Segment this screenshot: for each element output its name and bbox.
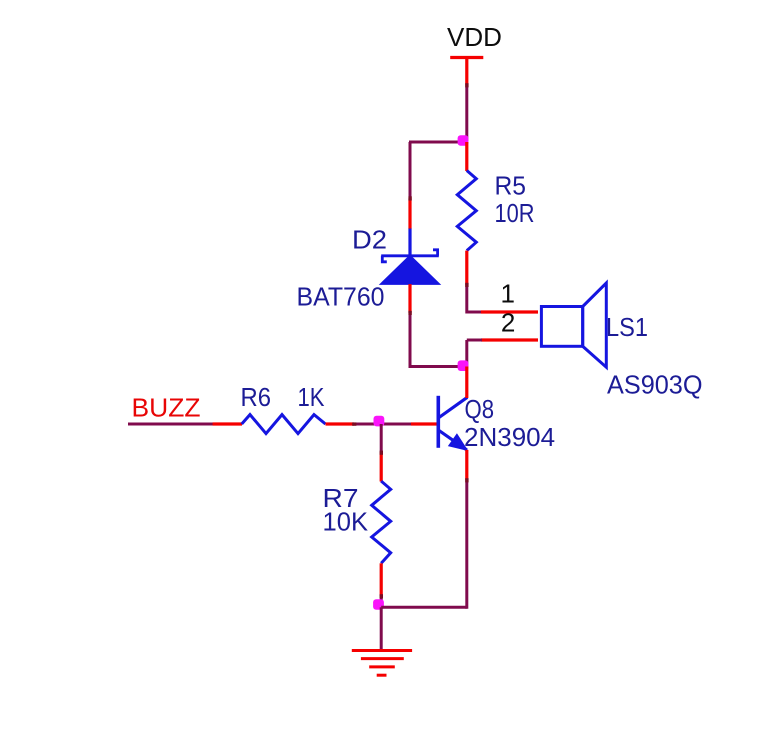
junction dot C (base) — [374, 416, 385, 427]
pin/wire overlap tick D2 anode wire — [408, 311, 411, 315]
svg-text:2: 2 — [501, 307, 515, 337]
pin/wire overlap tick R7 bottom — [380, 594, 383, 598]
wire R6 to Q8 base junction — [353, 423, 412, 426]
svg-text:LS1: LS1 — [606, 312, 648, 342]
wire corner down to junction B — [465, 340, 468, 367]
pin/wire overlap tick R5 bottom — [465, 283, 468, 287]
resistor R6 body — [242, 415, 326, 434]
pin/wire overlap tick R7 top — [380, 451, 383, 455]
wire ground junction to emitter column — [381, 606, 467, 609]
pin/wire overlap tick R6 right — [352, 422, 356, 425]
transistor Q8 base pin — [411, 422, 438, 425]
svg-text:R6: R6 — [241, 382, 272, 412]
svg-text:VDD: VDD — [447, 22, 502, 52]
transistor Q8 collector diagonal — [439, 397, 467, 417]
wire base junction down to R7 — [380, 424, 383, 453]
wire D2 column down — [409, 142, 412, 199]
ground symbol — [352, 651, 412, 676]
svg-text:BUZZ: BUZZ — [132, 392, 201, 422]
svg-text:BAT760: BAT760 — [297, 282, 385, 312]
wire corner to speaker pin1 — [467, 311, 482, 314]
speaker LS1 horn — [583, 283, 607, 367]
wire R5 bottom to corner — [465, 284, 468, 314]
diode D2 anode pin — [408, 284, 411, 313]
resistor R5 body — [457, 171, 476, 251]
pin/wire overlap tick Q8 emitter — [465, 478, 468, 482]
svg-text:1K: 1K — [298, 382, 326, 412]
resistor R7 body — [372, 481, 391, 563]
wire D2 anode to junction B — [409, 365, 467, 368]
wire D2 anode down — [409, 312, 412, 368]
svg-text:2N3904: 2N3904 — [464, 422, 555, 452]
transistor Q8 emitter pin — [465, 450, 468, 480]
wire emitter column down — [465, 480, 468, 609]
resistor R6 pin left — [213, 422, 242, 425]
resistor R7 pin top — [380, 452, 383, 482]
transistor Q8 collector pin — [465, 367, 468, 399]
junction dot A (top) — [458, 135, 469, 146]
svg-text:R5: R5 — [495, 171, 527, 201]
diode D2 triangle body — [381, 256, 440, 285]
wire BUZZ to R6 — [128, 423, 213, 426]
power port VDD bar — [450, 58, 483, 85]
wire speaker pin2 to corner — [467, 339, 482, 342]
resistor R7 pin bottom — [380, 563, 383, 596]
pin/wire overlap tick VDD stub — [465, 83, 468, 87]
speaker pin2 lead — [481, 338, 538, 341]
speaker pin1 lead — [481, 310, 538, 313]
speaker LS1 box — [541, 307, 582, 347]
wire VDD to junction — [465, 85, 468, 142]
svg-text:10K: 10K — [323, 506, 369, 536]
diode D2 schottky cathode bar — [381, 250, 439, 262]
wire junction to D2 column (horizontal) — [409, 141, 467, 144]
pin/wire overlap tick D2 cathode wire — [408, 196, 411, 200]
svg-text:Q8: Q8 — [465, 394, 495, 424]
svg-text:D2: D2 — [352, 224, 387, 254]
transistor Q8 emitter arrow — [449, 435, 467, 450]
svg-text:1: 1 — [501, 279, 515, 309]
diode D2 pin top (red upper) — [408, 199, 411, 230]
wire junction down to ground — [380, 607, 383, 650]
resistor R6 pin right — [326, 422, 355, 425]
resistor R5 pin top — [465, 142, 468, 171]
junction dot B — [458, 360, 469, 371]
diode D2 cathode lead — [408, 229, 411, 256]
junction dot D (ground) — [373, 599, 384, 610]
transistor Q8 emitter diagonal — [439, 431, 467, 450]
transistor Q8 base bar — [436, 396, 440, 448]
svg-text:10R: 10R — [495, 198, 535, 228]
svg-text:AS903Q: AS903Q — [607, 369, 703, 399]
wire R7 bottom to ground junction — [380, 595, 383, 609]
resistor R5 pin bottom — [465, 251, 468, 285]
